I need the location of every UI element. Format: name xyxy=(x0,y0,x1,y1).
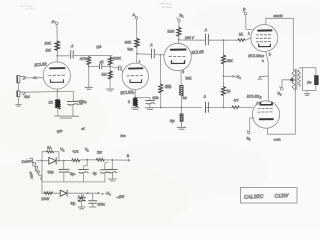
svg-text:10K: 10K xyxy=(45,41,52,45)
wire R18 to B arrow xyxy=(104,159,130,161)
node -V tap xyxy=(223,75,225,77)
ground cathodes xyxy=(258,76,263,79)
svg-text:3: 3 xyxy=(128,100,130,104)
node V2 rail xyxy=(58,160,60,162)
resistor R18 22R xyxy=(96,158,104,161)
pentode V3 grid3 dashes xyxy=(256,41,270,43)
resistor R8 grid leak V2 xyxy=(159,84,163,93)
input jack J1 upper xyxy=(17,76,26,83)
resistor R17 filter xyxy=(72,159,80,162)
capacitor C13 47u bias xyxy=(78,193,86,207)
capacitor C11 4u xyxy=(100,162,109,182)
transformer T1 primary xyxy=(292,70,295,89)
wire R3 to ground xyxy=(57,107,59,116)
ground R9 xyxy=(132,108,140,110)
ground bias caps xyxy=(78,207,96,209)
ground R6 xyxy=(106,89,114,91)
wire anode lead into V1a xyxy=(56,56,58,63)
wire R11 to grid V3 xyxy=(245,38,251,40)
wire cathode to C3 xyxy=(57,91,73,101)
node V1 rail xyxy=(86,159,88,161)
wire ground tap cathodes xyxy=(263,75,268,77)
wire grid leak upper xyxy=(159,55,161,84)
wire speaker ground drop xyxy=(306,91,308,94)
svg-text:68K: 68K xyxy=(227,59,234,63)
svg-text:100к: 100к xyxy=(98,203,106,207)
wire R9 ground xyxy=(134,106,136,108)
triode V1b cathode xyxy=(130,80,142,83)
wire bias branch drop xyxy=(42,182,44,193)
wire ground bus PSU xyxy=(42,161,105,182)
wire R10 to anode node V2 xyxy=(178,36,180,40)
ground C12 bar xyxy=(108,179,116,181)
wire R8 to bus xyxy=(160,93,162,108)
svg-text:3: 3 xyxy=(257,102,259,106)
resistor R14 680K bias upper xyxy=(222,55,226,64)
wire P1 left side vertical xyxy=(17,82,19,90)
resistor R9 cathode V1b xyxy=(133,98,138,107)
svg-text:1W: 1W xyxy=(46,49,52,53)
wire C6 ground xyxy=(149,104,151,108)
node grid blob xyxy=(32,76,38,79)
node rectifier input xyxy=(41,160,43,162)
ground C6 xyxy=(146,108,154,110)
node B2 supply terminal xyxy=(243,11,247,15)
capacitor C3 25u cathode bypass xyxy=(67,101,78,105)
wire cathode tap to terminal xyxy=(250,118,254,131)
wire B3 to center tap xyxy=(282,78,293,87)
transformer T1 secondary xyxy=(298,70,300,86)
wire anode V2 to C7 xyxy=(179,39,205,41)
wire tick to grid xyxy=(121,68,123,72)
svg-text:1M: 1M xyxy=(102,73,107,77)
svg-text:160 V: 160 V xyxy=(185,36,195,40)
ground input jack xyxy=(16,105,22,107)
stray smudge top middle xyxy=(160,3,171,7)
resistor R5 820K xyxy=(108,56,112,71)
wire B2 to screen V3 xyxy=(246,15,253,30)
svg-text:47µ: 47µ xyxy=(165,85,171,90)
wire R12 to bus xyxy=(180,95,182,108)
svg-text:1M0: 1M0 xyxy=(167,29,174,33)
wire -V tap right xyxy=(223,75,234,77)
wire bias to -V4 arrow xyxy=(88,192,100,194)
pentode V4 cathode top xyxy=(260,103,272,105)
wire anode V3 up and right xyxy=(266,18,293,24)
svg-text:ECL8212: ECL8212 xyxy=(248,53,264,58)
node bus grid leak xyxy=(160,107,162,109)
svg-text:1K: 1K xyxy=(49,100,54,104)
node grid leak tap xyxy=(160,54,162,56)
capacitor C8 0.1 lower coupling xyxy=(202,102,208,112)
wire anode V1b to C5 xyxy=(137,53,151,56)
triode V1a grid dashes xyxy=(49,74,65,76)
svg-text:1M: 1M xyxy=(96,45,102,50)
node bias output xyxy=(87,192,89,194)
wire A2 to R7 xyxy=(136,19,138,39)
wire anode V4 down and right xyxy=(268,89,296,134)
triode V2 anode plate xyxy=(171,49,186,51)
wire R7 to anode node V1b xyxy=(136,47,138,53)
wire secondary top to speaker xyxy=(299,67,302,69)
wire bias chain upper xyxy=(223,40,225,55)
transformer T2 mains winding xyxy=(30,158,43,180)
wire cathode V3 down xyxy=(266,52,269,101)
svg-text:470K: 470K xyxy=(80,57,89,61)
svg-text:.1: .1 xyxy=(150,43,153,47)
fuse F1 5A bypass xyxy=(42,151,59,161)
wire cathode V1a down xyxy=(56,89,58,99)
ground R13 xyxy=(177,127,186,129)
resistor R16 grid stopper V4 xyxy=(232,106,253,109)
svg-text:4µ: 4µ xyxy=(93,172,97,176)
ground speaker xyxy=(304,94,309,96)
capacitor grid tick V1b xyxy=(119,66,121,71)
speaker LS1 cabinet xyxy=(303,68,316,91)
node cap1 top xyxy=(63,160,65,162)
wire cathode V2 down xyxy=(180,71,182,86)
capacitor C6 50u bypass xyxy=(146,100,155,104)
svg-text:22г: 22г xyxy=(97,150,103,154)
capacitor C9 75u xyxy=(59,161,69,182)
svg-text:4µг: 4µг xyxy=(170,119,176,123)
wire jack to ground xyxy=(17,97,19,105)
capacitor C4 bridge xyxy=(89,64,110,69)
wire lower box to cathode node xyxy=(23,91,57,94)
svg-text:½w: ½w xyxy=(128,48,134,52)
wire B1 to R10 xyxy=(178,21,180,27)
svg-text:B: B xyxy=(127,154,130,158)
capacitor C14 100n bias xyxy=(89,193,97,207)
capacitor C7 0.1 upper coupling xyxy=(205,34,208,45)
svg-text:гиЛе: гиЛе xyxy=(274,138,281,142)
resistor R13 cathode lower V2 xyxy=(180,108,183,128)
pentode V3 cathode xyxy=(259,44,271,46)
pentode V3 grid2 dashes xyxy=(256,37,270,39)
wire bus splitter lower xyxy=(145,106,232,108)
node B5 terminal xyxy=(247,130,250,133)
node bias chain top xyxy=(223,39,225,41)
node bus bias chain xyxy=(223,107,225,109)
wire grid tap to V1b xyxy=(110,67,118,68)
resistor R3 cathode 1K xyxy=(55,100,60,109)
resistor R7 80K plate load V1b xyxy=(135,39,139,48)
svg-text:9: 9 xyxy=(182,70,184,74)
svg-text:100K: 100K xyxy=(41,197,50,201)
svg-text:4M: 4M xyxy=(24,94,30,99)
diode D1 rectifier xyxy=(42,157,59,164)
svg-text:5A: 5A xyxy=(47,146,52,150)
resistor R1 10K plate load V1a xyxy=(55,41,59,50)
svg-text:µ1: µ1 xyxy=(100,60,104,64)
node B3 terminal xyxy=(279,86,283,90)
node cathode junction xyxy=(57,91,59,93)
svg-text:820K: 820K xyxy=(113,57,122,61)
svg-text:.1: .1 xyxy=(71,44,74,48)
wire C5 to grid V2 xyxy=(154,54,164,56)
wire anode node into V2 xyxy=(177,40,180,44)
wire anode node into V1b xyxy=(136,54,138,64)
node B1 supply terminal xyxy=(177,18,181,22)
svg-text:CAL2EC: CAL2EC xyxy=(244,194,264,201)
wire anode node to C2 xyxy=(57,55,69,57)
wire C7 to node grid top xyxy=(209,39,238,41)
resistor R10 1M0 plate load V2 xyxy=(177,27,181,36)
wire R19 to D2 xyxy=(53,192,60,194)
node A2 supply terminal xyxy=(134,15,138,19)
triode V2 grid dashes xyxy=(169,55,185,57)
svg-text:Ωе: Ωе xyxy=(307,81,311,85)
diode D2 bias rectifier xyxy=(60,190,88,196)
wire R17 to V1 node xyxy=(80,159,97,161)
wire P1 wiper to grid V1a xyxy=(23,77,43,79)
ground R4 xyxy=(85,87,93,89)
svg-text:ECL82⇅: ECL82⇅ xyxy=(247,94,262,100)
title box xyxy=(241,188,298,204)
node anode V1b xyxy=(136,53,138,55)
pentode V3 grid1 dashes xyxy=(256,34,270,36)
svg-text:75µ: 75µ xyxy=(47,170,54,175)
svg-text:8µ+: 8µ+ xyxy=(70,172,76,176)
pentode V3 envelope xyxy=(251,25,278,52)
svg-text:3: 3 xyxy=(269,53,271,57)
svg-text:anode: anode xyxy=(274,14,283,18)
speaker LS1 magnet bar xyxy=(315,76,319,85)
node R5 R6 junction xyxy=(109,66,111,68)
capacitor C10 8u electrolytic xyxy=(79,160,89,182)
node V1a anode junction xyxy=(56,55,58,57)
resistor R6 1M lower xyxy=(108,71,112,89)
triode V1b anode plate xyxy=(129,67,143,69)
svg-text:1µ: 1µ xyxy=(227,89,231,93)
stray smudge top left xyxy=(20,6,35,9)
node bus cathode xyxy=(181,107,183,109)
triode V1a envelope xyxy=(43,62,70,89)
wire R14 to -V node xyxy=(222,64,224,76)
svg-text:гс: гс xyxy=(80,102,84,106)
wire rail V2 to R17 xyxy=(59,159,72,161)
wire C3 to ground xyxy=(72,105,74,116)
pentode V4 grid1 dashes xyxy=(258,107,272,109)
pentode V3 anode plate xyxy=(258,29,271,31)
svg-text:1: 1 xyxy=(248,32,250,36)
pentode V4 grid2 dashes xyxy=(258,111,272,113)
svg-text:гµг: гµг xyxy=(57,129,63,134)
svg-text:.1: .1 xyxy=(204,28,207,32)
svg-text:4,гк: 4,гк xyxy=(73,150,79,154)
svg-text:.1: .1 xyxy=(203,95,206,99)
pentode V4 anode plate bottom xyxy=(260,118,273,120)
capacitor C5 0.1 coupling xyxy=(151,49,154,58)
triode V1a anode plate xyxy=(50,67,65,69)
svg-text:1K: 1K xyxy=(239,32,244,36)
triode V2 envelope splitter xyxy=(164,43,191,70)
node R4 junction xyxy=(88,66,90,68)
capacitor C12 8u out xyxy=(108,160,117,179)
svg-text:A: A xyxy=(52,20,55,24)
triode V2 cathode xyxy=(172,61,185,64)
resistor R11 grid stopper V3 xyxy=(238,39,245,42)
resistor R4 470K grid load xyxy=(87,56,91,88)
cathode V1b wire down xyxy=(134,90,136,98)
capacitor C2 0.1 coupling xyxy=(71,51,74,59)
wire anode V3 down right side xyxy=(292,18,294,70)
wire C2 to R2 xyxy=(73,55,112,57)
node cathode V1b xyxy=(134,97,136,99)
transformer T1 core xyxy=(296,69,297,89)
svg-text:80K: 80K xyxy=(125,40,132,44)
node A1 supply terminal xyxy=(54,21,58,25)
svg-text:4г7: 4г7 xyxy=(234,99,239,103)
node anode V2 xyxy=(178,39,180,41)
node B rail cap xyxy=(111,159,113,161)
ground cathode bar xyxy=(55,116,79,118)
wire cathode V1b to C6 xyxy=(135,97,150,100)
resistor R12 cathode upper V2 xyxy=(180,86,183,96)
triode V1a cathode xyxy=(51,80,64,83)
svg-text:56K: 56K xyxy=(186,76,193,80)
svg-text:C12W: C12W xyxy=(274,193,289,200)
wire transformer to rect node xyxy=(37,160,43,162)
resistor R19 100K bias xyxy=(44,192,53,195)
input jack J2 lower xyxy=(17,91,25,97)
svg-text:0сг: 0сг xyxy=(121,134,126,138)
resistor R15 1M bias lower xyxy=(221,76,225,107)
wire R1 to anode node xyxy=(56,50,58,56)
pentode V4 envelope flipped xyxy=(252,101,279,128)
triode V1b envelope xyxy=(122,63,148,89)
wire A1 to R1 xyxy=(56,25,58,41)
svg-text:1w: 1w xyxy=(183,96,188,100)
triode V1b grid dashes xyxy=(127,75,143,77)
svg-text:4гµ: 4гµ xyxy=(70,201,75,205)
